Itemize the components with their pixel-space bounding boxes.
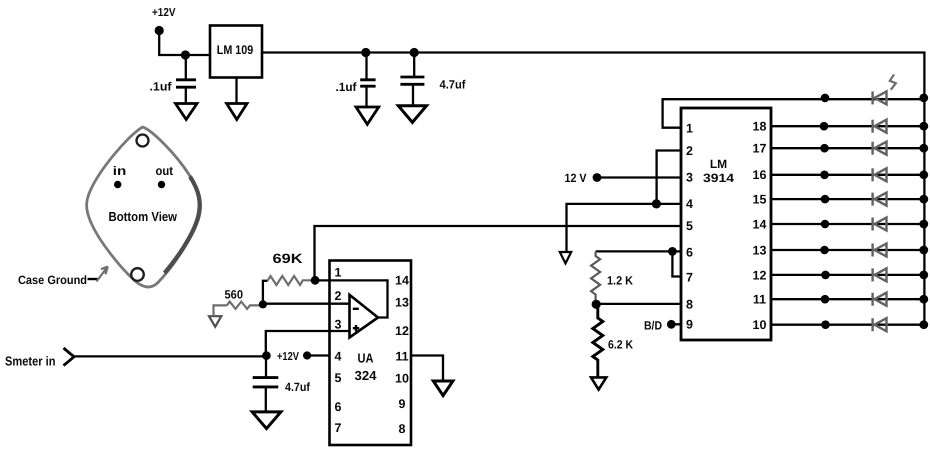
ground under C1	[176, 104, 198, 120]
svg-text:4: 4	[686, 197, 693, 211]
LM109 ground stem	[235, 78, 237, 104]
svg-text:15: 15	[753, 193, 767, 207]
svg-text:4.7uf: 4.7uf	[285, 380, 311, 394]
svg-text:3914: 3914	[703, 171, 734, 185]
LED D7	[873, 244, 887, 257]
svg-text:LM: LM	[710, 157, 727, 171]
node dot 12V	[593, 173, 602, 182]
TO-3 package outline (bottom view)	[87, 127, 201, 287]
junction dot at C3 tap	[410, 48, 419, 57]
capacitor C4 4.7uf stem	[265, 356, 267, 378]
wire pin 16 LED row	[771, 174, 924, 176]
svg-text:+12V: +12V	[152, 7, 176, 19]
minus sign inverting input	[353, 308, 359, 310]
junction dot at C2 tap	[361, 48, 370, 57]
junction dots mid rows	[821, 94, 830, 103]
svg-text:UA: UA	[358, 351, 375, 366]
svg-text:324: 324	[355, 368, 378, 383]
wire pin 17 LED row	[771, 147, 924, 149]
wire pin 8 node to LM3914	[596, 303, 681, 305]
svg-text:LM 109: LM 109	[217, 43, 254, 57]
wire pin1 feedback to output	[315, 280, 387, 317]
LED D9	[873, 293, 887, 306]
svg-text:1: 1	[686, 122, 693, 136]
svg-text:7: 7	[335, 421, 342, 435]
wire pin 1 loop over top to LED row 0	[663, 99, 925, 128]
wire pin 12 LED row	[771, 274, 924, 276]
wire smeter node up to op-amp pin 3	[266, 331, 330, 356]
ground under LM109	[227, 104, 247, 120]
wire op-amp pin 11 to ground	[411, 356, 443, 382]
wire pin2 node up to 69K	[263, 281, 268, 305]
plus sign non-inverting input	[353, 325, 359, 331]
LED D8	[873, 268, 887, 281]
svg-text:4.7uf: 4.7uf	[440, 78, 467, 92]
svg-text:14: 14	[395, 274, 409, 288]
wire from LM3914 pin5 down to pin1 node	[315, 226, 682, 280]
TO-3 bottom mounting hole	[131, 268, 144, 281]
capacitor C1 plates	[176, 80, 196, 87]
svg-text:18: 18	[753, 120, 767, 134]
svg-text:.1uf: .1uf	[336, 80, 358, 94]
TO-3 darker right rim	[165, 177, 200, 274]
ground for resistor 560	[209, 316, 221, 327]
ground at LM3914 pin 4	[560, 252, 571, 263]
resistor R3 1.2 K	[591, 251, 600, 304]
ground under C2	[356, 107, 379, 124]
ground under 6.2K	[591, 377, 606, 389]
junction dot pin 8 node	[592, 300, 601, 309]
driver U3 LM3914 box	[681, 108, 771, 340]
svg-text:11: 11	[395, 350, 408, 364]
LED D3	[873, 142, 887, 155]
svg-text:16: 16	[753, 168, 767, 182]
capacitor C1 lower stem	[185, 87, 187, 103]
op-amp triangle	[350, 295, 379, 338]
svg-text:8: 8	[686, 298, 693, 312]
junction dots on LED bus	[919, 94, 928, 103]
svg-text:13: 13	[395, 296, 409, 310]
resistor R4 6.2 K	[593, 304, 603, 377]
ground under C4	[252, 412, 281, 429]
op-amp U2 UA324 box	[330, 261, 412, 446]
regulator U1 LM 109 box	[210, 26, 262, 78]
svg-text:12: 12	[395, 324, 409, 338]
svg-text:6: 6	[686, 246, 693, 260]
svg-text:5: 5	[686, 219, 693, 233]
LED D2	[873, 120, 887, 133]
svg-text:2: 2	[686, 144, 693, 158]
wire pin 15 LED row	[771, 198, 924, 200]
junction dot smeter node	[262, 351, 271, 360]
pin dot in	[114, 181, 121, 188]
LED D10	[873, 318, 887, 331]
svg-text:4: 4	[335, 350, 342, 364]
svg-text:5: 5	[335, 371, 342, 385]
wire +12V to pin 4	[307, 354, 330, 356]
LED D4	[873, 168, 887, 181]
wire main +12 rail to LED bus	[262, 53, 924, 325]
capacitor C3 plates	[400, 77, 424, 84]
TO-3 top mounting hole	[137, 135, 149, 147]
svg-text:in: in	[113, 164, 127, 178]
arrow to case	[97, 267, 108, 282]
node dot +12V to pin 4	[303, 351, 311, 359]
junction dot op-amp pin 2 node	[259, 300, 267, 308]
LED D6	[873, 218, 887, 231]
svg-text:12: 12	[753, 269, 767, 283]
svg-text:6: 6	[335, 400, 342, 414]
input chevron Smeter in	[64, 348, 75, 366]
node dot B/D	[667, 320, 676, 329]
svg-text:560: 560	[225, 288, 244, 302]
capacitor C2 lower stem	[365, 86, 367, 107]
svg-text:11: 11	[753, 293, 766, 307]
svg-text:Bottom View: Bottom View	[109, 209, 178, 224]
wire pin 14 LED row	[771, 223, 924, 225]
dash after Case Ground	[88, 278, 98, 280]
svg-text:8: 8	[399, 422, 406, 436]
wire pin 3 inside segment	[330, 330, 350, 332]
ground at op-amp pin 11	[433, 381, 453, 396]
wire pin 10 LED row	[771, 324, 924, 326]
wire 560 ground lead	[214, 305, 227, 316]
pin dot out	[158, 181, 165, 188]
svg-text:10: 10	[395, 372, 409, 386]
wire pin 11 LED row	[771, 298, 924, 300]
capacitor C4 lower stem	[265, 387, 267, 412]
svg-text:13: 13	[753, 244, 767, 258]
resistor R1 560	[227, 302, 263, 309]
svg-text:6.2 K: 6.2 K	[608, 338, 633, 352]
wire pin 6 to pin 7 bracket	[672, 251, 681, 276]
svg-text:Case Ground: Case Ground	[18, 273, 87, 287]
junction dot at C1 tap	[181, 50, 190, 59]
svg-text:out: out	[156, 164, 174, 178]
svg-text:1.2 K: 1.2 K	[607, 274, 633, 288]
node +12V terminal dot	[155, 26, 164, 35]
wire Smeter in to junction	[74, 355, 266, 357]
wire LM3914 pin 4 to ground	[567, 204, 682, 252]
svg-text:9: 9	[399, 397, 406, 411]
capacitor C4 plates	[253, 378, 279, 387]
svg-text:.1uf: .1uf	[150, 80, 173, 94]
wire +12V down to rail	[159, 31, 210, 56]
svg-text:B/D: B/D	[644, 319, 662, 333]
svg-text:9: 9	[686, 318, 693, 332]
LED D1	[873, 91, 887, 104]
wire pin 13 LED row	[771, 249, 924, 251]
svg-text:17: 17	[753, 142, 767, 156]
svg-text:12 V: 12 V	[565, 171, 587, 185]
ground under C3	[398, 106, 426, 123]
wire 12V to LM3914 pin 3	[597, 176, 681, 178]
capacitor C3 lower stem	[412, 84, 414, 105]
svg-text:3: 3	[686, 171, 693, 185]
junction dot pin 4 node	[652, 199, 661, 208]
capacitor C2 plates	[360, 80, 375, 86]
capacitor C1 .1uf stem	[185, 55, 187, 79]
junction dot op-amp pin 1 node	[311, 276, 320, 285]
LED D5	[873, 193, 887, 206]
wire LM3914 pin 6 to 1.2K	[596, 250, 681, 252]
wire pin 2 node to inverting input	[263, 303, 350, 305]
capacitor C3 4.7uf stem	[413, 53, 415, 77]
wire LM3914 pin 2 to pin 4 node	[657, 151, 681, 204]
squiggle continuation mark	[890, 75, 896, 90]
svg-text:14: 14	[753, 218, 767, 232]
wire pin 2 inside segment	[330, 303, 350, 305]
junction dot pin 6 node	[668, 247, 677, 256]
capacitor C2 .1uf stem	[365, 53, 367, 80]
svg-text:1: 1	[335, 266, 342, 280]
wire pin 18 LED row	[771, 125, 924, 127]
resistor R2 69K	[268, 276, 316, 285]
svg-text:7: 7	[686, 271, 693, 285]
wire B/D to pin 9	[671, 323, 681, 325]
svg-text:69K: 69K	[273, 251, 303, 266]
svg-text:3: 3	[335, 318, 342, 332]
svg-text:10: 10	[753, 318, 767, 332]
svg-text:+12V: +12V	[277, 351, 299, 363]
svg-text:Smeter in: Smeter in	[5, 354, 56, 369]
svg-text:2: 2	[335, 289, 342, 303]
